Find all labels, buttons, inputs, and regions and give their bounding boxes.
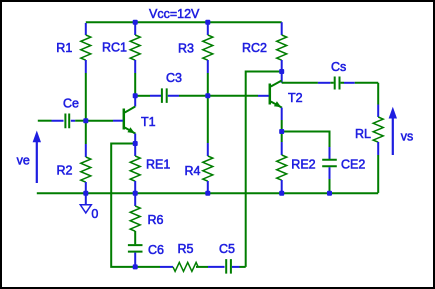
svg-text:R2: R2: [57, 164, 73, 178]
node dot collector T1: [133, 93, 138, 98]
capacitor CE2: [322, 147, 337, 193]
transistor T2: [258, 72, 282, 132]
resistor RC2: [277, 22, 287, 71]
node dot emitter T2: [279, 129, 284, 134]
node dot ground R4: [205, 191, 210, 196]
svg-text:RE2: RE2: [291, 157, 315, 171]
wire T1 base from node A: [86, 120, 113, 122]
resistor R6: [130, 193, 140, 244]
node dot ground RE1: [133, 191, 138, 196]
wire T2 base: [208, 95, 258, 97]
svg-text:RE1: RE1: [146, 158, 170, 172]
svg-text:R5: R5: [178, 242, 194, 256]
resistor RL: [373, 83, 383, 193]
node dot rail RC1: [133, 20, 138, 25]
ground rail: [37, 192, 378, 194]
wire loop to R5: [135, 266, 160, 268]
svg-text:C6: C6: [148, 243, 164, 257]
capacitor Ce: [52, 114, 76, 129]
wire Ce to node A: [75, 120, 86, 122]
wire T2 emitter node to CE2: [282, 132, 330, 148]
svg-text:T1: T1: [141, 115, 156, 129]
wire feedback top: [246, 72, 282, 267]
node dot collector T2: [279, 69, 284, 74]
svg-text:CE2: CE2: [341, 158, 365, 172]
resistor R5: [160, 262, 208, 271]
resistor R1: [81, 23, 91, 121]
wire T1 emitter node to loop: [111, 144, 136, 267]
svg-text:R3: R3: [178, 42, 194, 56]
svg-text:RL: RL: [355, 127, 371, 141]
node dot ground R2: [83, 191, 88, 196]
resistor RE2: [277, 132, 287, 193]
svg-text:C3: C3: [166, 71, 182, 85]
resistor RE1: [130, 144, 140, 193]
capacitor C3: [135, 88, 208, 103]
svg-text:0: 0: [91, 207, 98, 221]
svg-text:C5: C5: [219, 242, 235, 256]
node dot emitter T1: [133, 141, 138, 146]
capacitor C6: [128, 245, 143, 267]
node dot ground CE2: [327, 191, 332, 196]
svg-text:RC2: RC2: [242, 41, 267, 55]
node dot base T1: [83, 118, 88, 123]
svg-text:R6: R6: [148, 213, 164, 227]
node dot rail R3: [205, 20, 210, 25]
node dot C3 R3 R4: [205, 93, 210, 98]
resistor R4: [203, 96, 213, 193]
wire input to Ce: [38, 120, 52, 122]
transistor T1: [113, 96, 135, 144]
arrow vs: [389, 107, 397, 155]
svg-text:R1: R1: [56, 41, 72, 55]
svg-text:Ce: Ce: [63, 97, 79, 111]
resistor RC1: [130, 22, 140, 96]
capacitor Cs: [318, 77, 378, 90]
svg-text:R4: R4: [185, 164, 201, 178]
svg-text:Vcc=12V: Vcc=12V: [149, 7, 200, 21]
svg-text:Cs: Cs: [331, 60, 346, 74]
arrow ve: [33, 131, 41, 184]
Vcc power rail: [86, 21, 282, 23]
capacitor C5: [208, 259, 246, 274]
svg-text:T2: T2: [288, 91, 303, 105]
svg-text:vs: vs: [401, 130, 414, 144]
svg-text:ve: ve: [17, 154, 30, 168]
node dot ground RE2: [279, 191, 284, 196]
resistor R2: [81, 121, 91, 193]
ground symbol node 0: [80, 194, 91, 213]
svg-text:RC1: RC1: [102, 41, 127, 55]
resistor R3: [203, 22, 213, 96]
node dot C6 loop: [133, 264, 138, 269]
wire T2 collector to Cs: [282, 82, 318, 84]
